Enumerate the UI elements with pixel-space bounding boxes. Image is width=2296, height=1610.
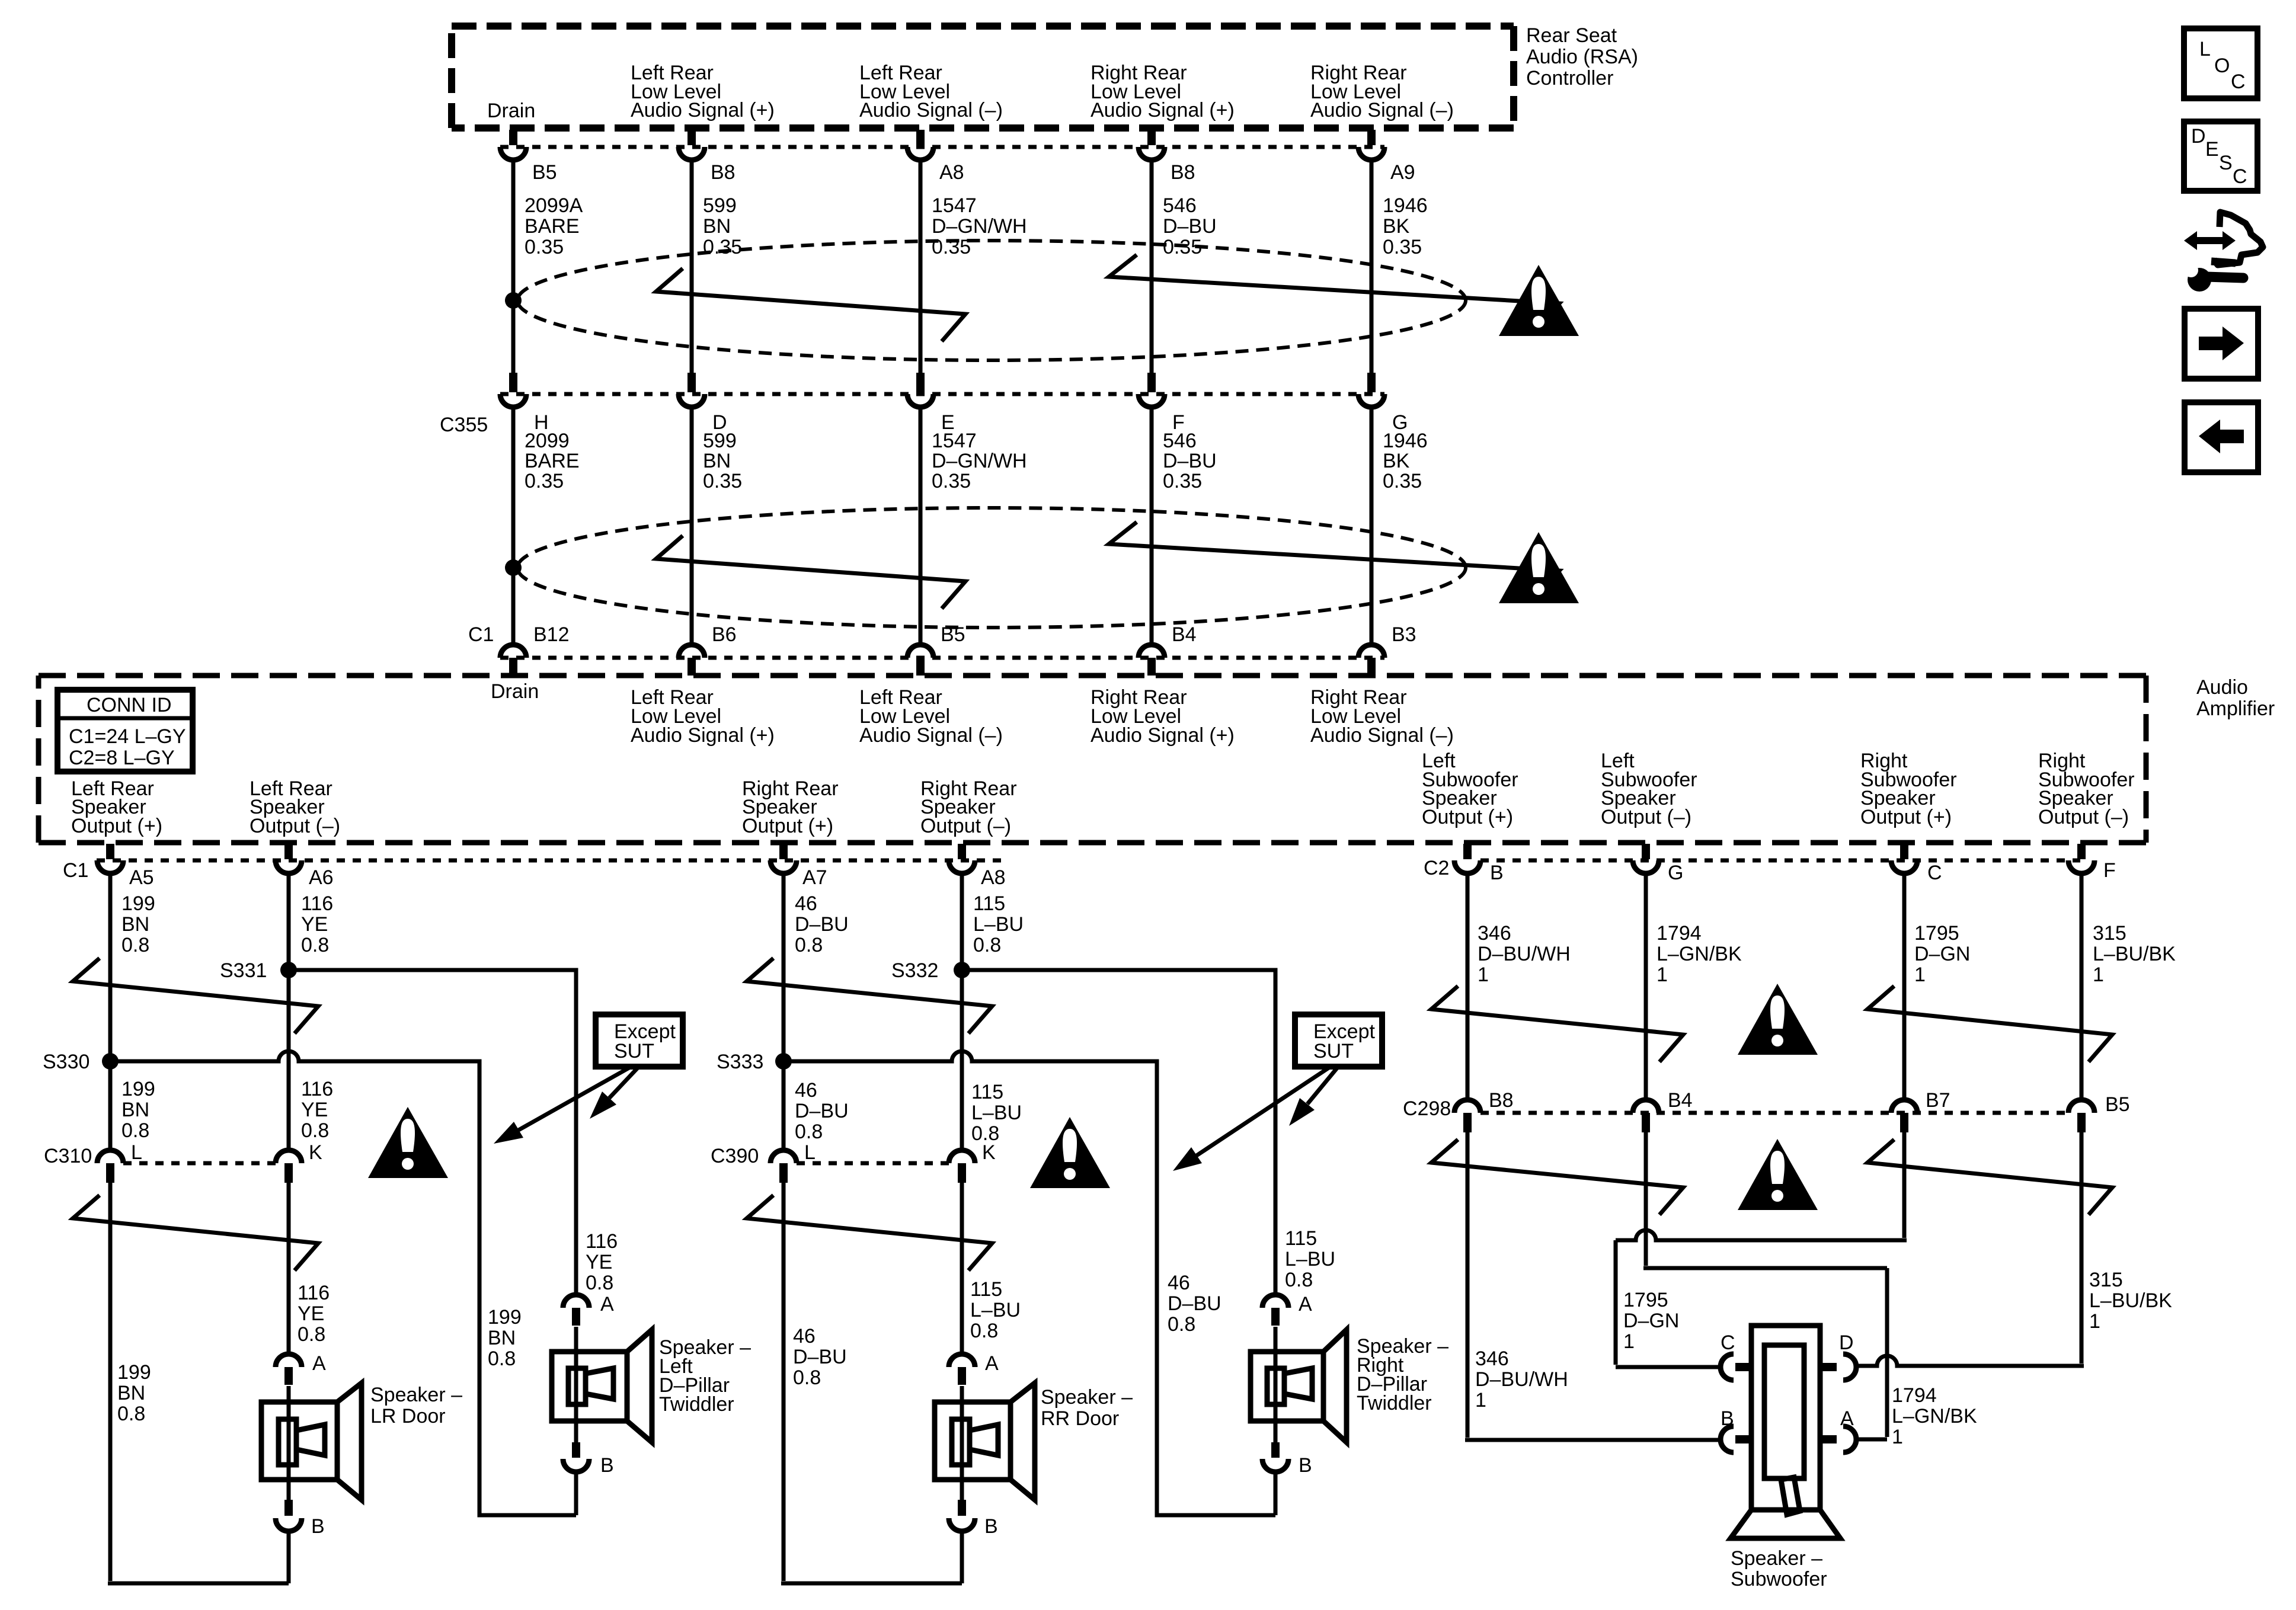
svg-text:E: E (2205, 138, 2219, 161)
svg-text:0.8: 0.8 (1285, 1269, 1313, 1291)
svg-text:0.8: 0.8 (121, 934, 149, 956)
wire left twiddler B to loop (574, 1472, 578, 1515)
twisted pair zigzag subwoofer lower left (1431, 1140, 1683, 1215)
svg-text:B4: B4 (1668, 1089, 1693, 1112)
svg-text:546: 546 (1163, 430, 1197, 452)
amp port label Right Rear Low Level Audio Signal (-) (1310, 686, 1454, 747)
Except SUT arrow middle long (1173, 1067, 1331, 1171)
svg-text:B8: B8 (711, 161, 736, 184)
connector pin C310 L (97, 1141, 142, 1183)
svg-text:K: K (309, 1141, 322, 1164)
svg-text:D: D (1839, 1331, 1854, 1354)
connector pin C1 A6 (276, 844, 334, 889)
svg-text:S330: S330 (43, 1051, 89, 1073)
svg-text:115: 115 (973, 892, 1005, 915)
icon DESC box (2184, 121, 2257, 191)
svg-text:F: F (2103, 859, 2116, 882)
warning triangle top 1 (1499, 265, 1579, 336)
svg-text:Drain: Drain (491, 680, 539, 703)
wire 2099A BARE drain segment (513, 160, 583, 373)
wire S331 branch to left twiddler A (289, 970, 576, 1295)
svg-text:BN: BN (488, 1327, 516, 1349)
connector pin C2 B (1454, 844, 1504, 884)
svg-text:L–GN/BK: L–GN/BK (1657, 943, 1742, 965)
icon LOC box (2184, 28, 2257, 98)
connector pin C1 B4 (1139, 623, 1197, 676)
svg-text:315: 315 (2089, 1269, 2123, 1291)
connector pin C1 A8 (949, 844, 1006, 889)
wire 116 YE upper segment (289, 873, 333, 1150)
connector pin C310 K (276, 1141, 322, 1183)
connector pin RSA A9 (1358, 130, 1415, 184)
warning triangle left group (368, 1107, 448, 1178)
svg-text:CONN ID: CONN ID (87, 694, 172, 716)
svg-text:C310: C310 (44, 1145, 92, 1167)
wire 599 BN segment (692, 160, 742, 373)
svg-text:Audio Signal (+): Audio Signal (+) (631, 99, 775, 121)
connector pin RSA B8 (679, 130, 736, 184)
svg-text:B8: B8 (1171, 161, 1195, 184)
Audio Amplifier box (39, 676, 2275, 843)
svg-text:Amplifier: Amplifier (2196, 697, 2275, 720)
svg-text:0.35: 0.35 (525, 236, 564, 258)
amp port label Right Subwoofer Speaker Output (+) (1860, 750, 1957, 828)
svg-text:G: G (1668, 862, 1683, 884)
twisted pair zigzag subwoofer upper left (1431, 986, 1683, 1062)
svg-text:D: D (2191, 125, 2206, 148)
speaker - LR Door (261, 1383, 462, 1500)
svg-text:L–BU: L–BU (1285, 1248, 1335, 1270)
amp port label Left Subwoofer Speaker Output (+) (1422, 750, 1518, 828)
connector C1 amp output dotted line (63, 859, 1008, 882)
wire 1946 BK segment (1371, 160, 1428, 373)
wire 199 BN upper segment (110, 873, 155, 1150)
svg-text:Output (–): Output (–) (1601, 806, 1691, 828)
svg-text:1547: 1547 (932, 430, 977, 452)
svg-text:BN: BN (121, 913, 149, 936)
amp port label Left Rear Speaker Output (-) (250, 777, 340, 837)
svg-text:B: B (1299, 1454, 1312, 1477)
RSA port label Right Rear Low Level Audio Signal (-) (1310, 62, 1454, 121)
svg-text:0.8: 0.8 (795, 1121, 823, 1143)
svg-text:C: C (2233, 165, 2247, 188)
svg-text:A: A (1299, 1293, 1312, 1315)
connector pin C355 E (907, 373, 955, 434)
svg-text:B8: B8 (1489, 1089, 1514, 1112)
svg-text:BN: BN (703, 450, 731, 472)
connector pin C2 F (2068, 844, 2116, 882)
speaker - Subwoofer (1731, 1326, 1840, 1590)
wire 46 D-BU to RR door B loop (781, 1183, 962, 1583)
amp port label Left Rear Low Level Audio Signal (+) (631, 686, 775, 747)
svg-text:B3: B3 (1392, 623, 1416, 646)
svg-text:BK: BK (1383, 450, 1410, 472)
svg-text:46: 46 (1168, 1272, 1190, 1294)
wire 2099 BARE segment (513, 407, 580, 644)
connector pin C355 D (679, 373, 727, 434)
twisted pair zigzag left group 1 (73, 958, 318, 1033)
splice S330 (43, 1051, 119, 1073)
wire 1547 D-GN/WH segment (920, 160, 1027, 373)
Except SUT box left (596, 1014, 683, 1067)
svg-text:0.35: 0.35 (1383, 236, 1422, 258)
svg-text:C298: C298 (1403, 1097, 1451, 1120)
svg-text:B6: B6 (712, 623, 737, 646)
connector pin C355 F (1139, 373, 1185, 434)
svg-text:C2=8 L–GY: C2=8 L–GY (69, 747, 175, 769)
speaker - Right D-Pillar Twiddler (1251, 1327, 1448, 1442)
svg-text:116: 116 (586, 1230, 618, 1253)
svg-text:D–GN/WH: D–GN/WH (932, 450, 1027, 472)
connector terminal LR door A (276, 1352, 326, 1385)
svg-text:599: 599 (703, 430, 737, 452)
svg-text:Twiddler: Twiddler (1357, 1392, 1432, 1414)
warning triangle subwoofer 2 (1738, 1139, 1818, 1210)
svg-text:YE: YE (586, 1251, 612, 1273)
svg-text:46: 46 (795, 892, 817, 915)
svg-text:Output (–): Output (–) (920, 815, 1011, 837)
connector pin C1 A5 (97, 844, 154, 889)
svg-text:Output (+): Output (+) (1860, 806, 1952, 828)
twisted pair zigzag lower left (656, 536, 965, 609)
RSA port label Right Rear Low Level Audio Signal (+) (1091, 62, 1235, 121)
svg-text:0.35: 0.35 (703, 470, 742, 492)
connector terminal LR door B (276, 1480, 325, 1538)
svg-text:BN: BN (117, 1382, 145, 1404)
shield ellipse upper (517, 241, 1466, 360)
svg-text:BN: BN (703, 215, 731, 238)
wire 546 D-BU segment (1152, 160, 1217, 373)
connector C298 dotted line (1403, 1097, 2068, 1120)
wire 46 D-BU label below S333 (795, 1079, 849, 1143)
svg-text:B12: B12 (533, 623, 570, 646)
svg-text:546: 546 (1163, 194, 1197, 217)
svg-text:L: L (804, 1141, 816, 1164)
svg-text:YE: YE (301, 1099, 328, 1121)
svg-text:Output (+): Output (+) (1422, 806, 1513, 828)
wire 199 BN branch label (left twiddler) (488, 1306, 522, 1370)
svg-text:C1: C1 (468, 623, 494, 646)
connector pin C1 B3 (1358, 623, 1416, 676)
connector pin C1 A7 (770, 844, 827, 889)
warning triangle top 2 (1499, 532, 1579, 603)
connector C1 harness dotted line (468, 623, 1384, 658)
amp port label Left Rear Speaker Output (+) (71, 777, 162, 837)
svg-text:0.35: 0.35 (1383, 470, 1422, 492)
splice S332 (891, 959, 970, 982)
svg-text:B: B (1721, 1407, 1734, 1430)
svg-text:L–BU: L–BU (973, 913, 1024, 936)
connector C310 dotted line (44, 1145, 276, 1167)
RSA port label Left Rear Low Level Audio Signal (+) (631, 62, 775, 121)
svg-text:SUT: SUT (1313, 1040, 1354, 1062)
wire 315 L-BU/BK upper segment (2081, 873, 2176, 1100)
CONN ID table (57, 690, 193, 772)
connector terminal right twiddler B (1262, 1421, 1312, 1477)
svg-text:L–BU/BK: L–BU/BK (2093, 943, 2176, 965)
svg-text:K: K (982, 1141, 996, 1164)
svg-text:B: B (1490, 862, 1504, 884)
svg-text:0.8: 0.8 (121, 1119, 149, 1142)
connector pin RSA B8 (right) (1139, 130, 1195, 184)
svg-text:L–GN/BK: L–GN/BK (1892, 1405, 1977, 1427)
svg-text:1: 1 (2093, 964, 2104, 986)
warning triangle subwoofer 1 (1738, 984, 1818, 1055)
connector terminal left twiddler B (563, 1421, 614, 1477)
RSA connector row dotted line (500, 145, 1384, 149)
svg-text:Audio Signal (–): Audio Signal (–) (859, 724, 1003, 747)
svg-text:C355: C355 (440, 414, 488, 436)
svg-text:L–BU: L–BU (970, 1299, 1021, 1321)
svg-text:A: A (1840, 1407, 1854, 1430)
svg-text:L–BU/BK: L–BU/BK (2089, 1289, 2172, 1312)
svg-text:1: 1 (1892, 1426, 1903, 1448)
svg-text:A8: A8 (939, 161, 964, 184)
svg-text:D–BU: D–BU (1163, 215, 1217, 238)
connector terminal subwoofer D (1819, 1331, 1856, 1380)
svg-text:RR Door: RR Door (1041, 1407, 1119, 1430)
svg-text:0.8: 0.8 (298, 1323, 325, 1346)
connector pin C2 C (1891, 844, 1942, 884)
svg-text:A: A (312, 1352, 326, 1375)
svg-text:D–BU/WH: D–BU/WH (1478, 943, 1571, 965)
wire 1794 L-GN/BK to subwoofer A (1643, 1132, 1977, 1448)
connector terminal left twiddler A (563, 1293, 614, 1326)
wire 1946 BK segment 2 (1371, 407, 1428, 644)
svg-text:D–BU: D–BU (1168, 1292, 1221, 1315)
svg-text:1946: 1946 (1383, 430, 1428, 452)
svg-text:1: 1 (1657, 964, 1668, 986)
svg-text:A9: A9 (1390, 161, 1415, 184)
svg-text:1: 1 (1478, 964, 1489, 986)
connector C390 dotted line (711, 1145, 949, 1167)
svg-text:2099A: 2099A (525, 194, 583, 217)
svg-text:L: L (2199, 38, 2211, 60)
svg-text:315: 315 (2093, 922, 2126, 945)
svg-text:1: 1 (1914, 964, 1926, 986)
svg-text:A5: A5 (129, 866, 154, 889)
connector C2 amp output dotted line (1424, 857, 2080, 879)
svg-text:Audio Signal (–): Audio Signal (–) (859, 99, 1003, 121)
svg-text:B: B (311, 1515, 325, 1538)
speaker - Left D-Pillar Twiddler (552, 1327, 751, 1442)
svg-text:C: C (2231, 71, 2246, 93)
connector pin C355 H (500, 373, 549, 434)
svg-text:D–BU: D–BU (1163, 450, 1217, 472)
svg-text:1547: 1547 (932, 194, 977, 217)
svg-text:2099: 2099 (525, 430, 570, 452)
amp port label Left Rear Low Level Audio Signal (-) (859, 686, 1003, 747)
wire 115 L-BU to RR door A (962, 1183, 1021, 1354)
svg-text:Audio Signal (+): Audio Signal (+) (1091, 724, 1235, 747)
twisted pair zigzag subwoofer lower right (1868, 1140, 2112, 1215)
shield ellipse lower (517, 508, 1466, 628)
svg-text:0.8: 0.8 (301, 934, 329, 956)
Except SUT arrow left long (494, 1067, 631, 1144)
svg-text:B: B (600, 1454, 614, 1477)
wire S330 branch to left twiddler B (110, 1051, 576, 1515)
svg-text:B5: B5 (2105, 1093, 2130, 1116)
svg-text:D–GN/WH: D–GN/WH (932, 215, 1027, 238)
icon vehicle diagnostic (arrow, outline, wrench) (2184, 212, 2263, 292)
svg-text:Drain: Drain (487, 100, 535, 122)
svg-text:Output (+): Output (+) (742, 815, 833, 837)
wire S333 branch to right twiddler B (784, 1051, 1275, 1515)
wire 346 D-BU/WH to subwoofer B (1465, 1132, 1721, 1440)
connector pin C298 B7 (1891, 1089, 1950, 1132)
svg-text:Output (+): Output (+) (71, 815, 162, 837)
svg-text:C2: C2 (1424, 857, 1449, 879)
connector terminal right twiddler A (1262, 1293, 1312, 1326)
svg-text:A7: A7 (802, 866, 827, 889)
svg-text:BK: BK (1383, 215, 1410, 238)
svg-text:1794: 1794 (1892, 1384, 1937, 1407)
svg-text:Output (–): Output (–) (250, 815, 340, 837)
svg-text:0.35: 0.35 (1163, 470, 1202, 492)
RSA port label Left Rear Low Level Audio Signal (-) (859, 62, 1003, 121)
svg-text:S: S (2219, 152, 2233, 174)
twisted pair zigzag upper left (656, 268, 965, 341)
svg-text:S333: S333 (717, 1051, 763, 1073)
wire 115 L-BU label below S332 (971, 1081, 1022, 1145)
svg-text:D–GN: D–GN (1623, 1310, 1679, 1332)
svg-text:L: L (131, 1141, 142, 1164)
svg-text:0.8: 0.8 (970, 1320, 998, 1342)
svg-text:D–BU: D–BU (793, 1346, 847, 1368)
svg-text:116: 116 (301, 1078, 333, 1100)
connector pin RSA B5 (drain) (500, 130, 557, 184)
connector terminal RR door A (949, 1352, 999, 1385)
connector pin C355 G (1358, 373, 1408, 434)
connector pin C298 B8 (1454, 1089, 1514, 1132)
svg-text:1: 1 (1475, 1389, 1486, 1411)
svg-text:199: 199 (117, 1361, 151, 1384)
amp port label Right Rear Speaker Output (+) (742, 777, 839, 837)
svg-text:C1: C1 (63, 859, 88, 882)
wire 1547 D-GN/WH segment 2 (920, 407, 1027, 644)
Except SUT box middle (1295, 1014, 1382, 1067)
wire 46 D-BU upper segment (784, 873, 849, 1150)
svg-text:Audio (RSA): Audio (RSA) (1526, 46, 1638, 68)
svg-text:116: 116 (301, 892, 333, 915)
Rear Seat Audio (RSA) Controller box (452, 24, 1638, 128)
svg-text:BARE: BARE (525, 450, 580, 472)
svg-text:0.8: 0.8 (795, 934, 823, 956)
svg-text:B7: B7 (1926, 1089, 1950, 1112)
connector C355 dotted line (440, 394, 1384, 436)
warning triangle middle group (1030, 1117, 1110, 1188)
svg-text:B5: B5 (532, 161, 557, 184)
amp port label Right Rear Speaker Output (-) (920, 777, 1017, 837)
wire 199 BN to LR door B loop (108, 1183, 289, 1583)
connector pin C298 B5 (2068, 1093, 2130, 1132)
icon back arrow box (2185, 402, 2258, 472)
connector pin C390 K (949, 1141, 996, 1183)
svg-text:0.35: 0.35 (703, 236, 742, 258)
svg-text:B: B (984, 1515, 998, 1538)
wire S332 branch to right twiddler A (962, 970, 1275, 1295)
twisted pair zigzag lower right (1109, 522, 1559, 597)
svg-text:46: 46 (795, 1079, 817, 1102)
svg-text:B4: B4 (1172, 623, 1197, 646)
svg-text:Audio Signal (+): Audio Signal (+) (631, 724, 775, 747)
svg-text:D–BU: D–BU (795, 913, 849, 936)
svg-text:346: 346 (1478, 922, 1511, 945)
svg-text:1946: 1946 (1383, 194, 1428, 217)
svg-text:115: 115 (1285, 1227, 1317, 1250)
wire 116 YE label below S331 (301, 1078, 333, 1142)
svg-text:C390: C390 (711, 1145, 759, 1167)
svg-text:D–BU: D–BU (795, 1100, 849, 1122)
svg-text:0.35: 0.35 (932, 470, 971, 492)
wire 599 BN segment 2 (692, 407, 742, 644)
wire 1795 D-GN upper segment (1904, 873, 1970, 1100)
wire right twiddler B to loop (1274, 1472, 1278, 1515)
twisted pair zigzag upper right (1109, 255, 1559, 329)
svg-text:Speaker –: Speaker – (370, 1384, 462, 1406)
svg-text:SUT: SUT (614, 1040, 654, 1062)
svg-text:C: C (1927, 862, 1942, 884)
svg-text:1795: 1795 (1914, 922, 1959, 945)
splice S331 (220, 959, 297, 982)
speaker - RR Door (935, 1383, 1133, 1500)
svg-text:0.8: 0.8 (488, 1347, 516, 1370)
drain shield junction dot lower (505, 559, 522, 576)
svg-text:S331: S331 (220, 959, 267, 982)
svg-text:Speaker –: Speaker – (1041, 1386, 1133, 1409)
svg-text:A8: A8 (981, 866, 1006, 889)
svg-text:O: O (2214, 55, 2230, 77)
svg-text:199: 199 (121, 892, 155, 915)
svg-text:0.8: 0.8 (973, 934, 1001, 956)
Except SUT arrow left short (590, 1067, 639, 1119)
svg-text:YE: YE (298, 1302, 324, 1325)
svg-text:0.35: 0.35 (525, 470, 564, 492)
svg-text:599: 599 (703, 194, 737, 217)
wire 115 L-BU upper segment (962, 873, 1024, 1150)
twisted pair zigzag middle group 1 (747, 958, 992, 1033)
svg-text:0.8: 0.8 (117, 1403, 145, 1425)
svg-text:C1=24 L–GY: C1=24 L–GY (69, 725, 186, 748)
wire 1795 D-GN to subwoofer C (1616, 1132, 1907, 1367)
svg-text:BARE: BARE (525, 215, 580, 238)
twisted pair zigzag left group 2 (73, 1195, 318, 1270)
svg-text:0.8: 0.8 (793, 1366, 821, 1389)
svg-text:0.8: 0.8 (1168, 1313, 1195, 1336)
svg-text:346: 346 (1475, 1347, 1509, 1370)
svg-text:D–GN: D–GN (1914, 943, 1970, 965)
wire 46 D-BU branch label (right twiddler) (1168, 1272, 1221, 1336)
connector pin C390 L (770, 1141, 816, 1183)
wire 115 L-BU branch label (right twiddler) (1285, 1227, 1335, 1291)
icon forward arrow box (2185, 309, 2258, 379)
twisted pair zigzag subwoofer upper right (1868, 986, 2112, 1062)
svg-text:0.8: 0.8 (586, 1272, 613, 1294)
svg-text:YE: YE (301, 913, 328, 936)
svg-text:Rear Seat: Rear Seat (1526, 24, 1617, 47)
svg-text:BN: BN (121, 1099, 149, 1121)
svg-text:Audio: Audio (2196, 676, 2248, 699)
svg-text:B5: B5 (941, 623, 965, 646)
svg-text:Output (–): Output (–) (2038, 806, 2129, 828)
svg-text:D–BU/WH: D–BU/WH (1475, 1368, 1568, 1391)
svg-text:Audio Signal (+): Audio Signal (+) (1091, 99, 1235, 121)
connector pin C298 B4 (1633, 1089, 1693, 1132)
svg-text:199: 199 (488, 1306, 522, 1329)
wire 199 BN label below S330 (121, 1078, 155, 1142)
svg-text:116: 116 (298, 1282, 330, 1304)
connector pin C2 G (1633, 844, 1683, 884)
